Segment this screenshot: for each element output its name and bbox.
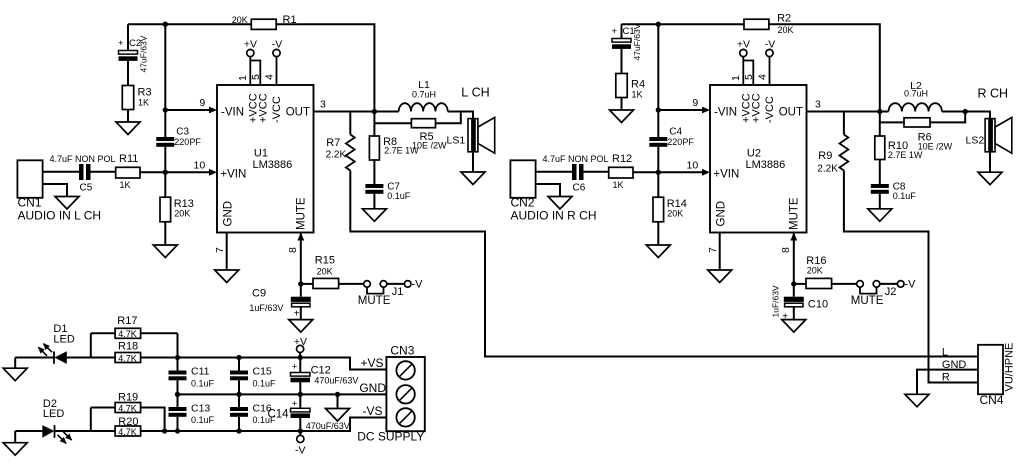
- svg-text:7: 7: [214, 247, 226, 253]
- wire: D2 to R19/R20: [55, 430, 91, 432]
- wire: C6 to R12: [584, 171, 609, 173]
- svg-text:0.1uF: 0.1uF: [387, 191, 411, 201]
- wire: -VS rail: [91, 430, 115, 432]
- node GND/C15-C16: [236, 392, 241, 397]
- svg-text:L CH: L CH: [461, 86, 489, 100]
- svg-text:20K: 20K: [317, 266, 333, 276]
- wire: C4 to +VIN node: [657, 147, 659, 173]
- svg-text:LS1: LS1: [447, 135, 466, 147]
- resistor R3 1K: [122, 86, 133, 110]
- ground (below R13): [153, 245, 177, 258]
- wire: pin 9 -VIN into U2: [658, 109, 704, 111]
- resistor R2 20K feedback: [744, 19, 769, 29]
- jumper J2 pin C (-V): [897, 281, 904, 288]
- wire: R7 to headphone L line: [350, 171, 978, 357]
- wire: mute junction to R15: [301, 283, 313, 285]
- wire: C14 column: [299, 394, 301, 408]
- svg-text:4.7K: 4.7K: [118, 427, 137, 437]
- capacitor C5 4.7uF NON POL: [79, 164, 84, 180]
- wire: GND rail: [178, 393, 387, 395]
- node OUT junction R: [877, 109, 882, 114]
- svg-text:R9: R9: [818, 150, 832, 162]
- resistor R20 4.7K: [115, 426, 141, 436]
- svg-text:LM3886: LM3886: [746, 159, 786, 171]
- svg-text:AUDIO IN R CH: AUDIO IN R CH: [511, 209, 597, 223]
- junction node top rail x165.3: [163, 22, 168, 27]
- svg-text:C9: C9: [252, 288, 266, 300]
- capacitor C11 0.1uF: [169, 371, 187, 375]
- svg-text:220PF: 220PF: [174, 137, 201, 147]
- svg-text:+: +: [292, 398, 298, 409]
- svg-text:C11: C11: [191, 366, 210, 378]
- svg-text:R18: R18: [118, 341, 138, 353]
- jumper J1 pin A: [364, 281, 371, 288]
- ground (CN2): [548, 197, 572, 210]
- svg-text:2.2K: 2.2K: [326, 150, 347, 161]
- wire: +VS rail: [91, 357, 115, 359]
- wire: C1 to R4: [621, 49, 623, 74]
- capacitor C10 1uF/63V (polarized): [784, 297, 804, 302]
- wire: -VIN vertical net (L): [164, 24, 166, 137]
- jumper J2 pin B: [873, 281, 880, 288]
- speaker LS1: [468, 119, 478, 152]
- wire: C12 column: [299, 358, 301, 373]
- svg-text:4: 4: [756, 74, 768, 80]
- svg-text:2.2K: 2.2K: [817, 164, 838, 175]
- svg-text:LS2: LS2: [966, 135, 985, 147]
- wire: pin 9 -VIN into U1: [165, 109, 211, 111]
- terminal -V (VEE): [273, 49, 280, 56]
- wire: R10 branch down: [879, 112, 881, 137]
- svg-text:0.1uF: 0.1uF: [893, 191, 917, 201]
- capacitor C16 0.1uF: [230, 407, 248, 411]
- svg-text:+VCC: +VCC: [258, 93, 270, 123]
- terminal -V (supply): [297, 435, 304, 442]
- svg-text:R12: R12: [612, 153, 632, 165]
- resistor R4 1K: [616, 74, 627, 98]
- svg-text:4.7uF NON POL: 4.7uF NON POL: [50, 154, 116, 164]
- wire: R17 row: [91, 332, 178, 334]
- resistor R9 2.2K (zigzag): [840, 135, 849, 171]
- svg-text:47uF/63V: 47uF/63V: [139, 35, 149, 72]
- ground (D2): [14, 431, 16, 443]
- wire: LS2 to ground: [989, 152, 991, 172]
- svg-text:R1: R1: [283, 14, 297, 26]
- node -VIN junction (L): [163, 107, 168, 112]
- node GND/C12-C14: [298, 392, 303, 397]
- wire: jumper B to C: [880, 283, 898, 285]
- svg-text:C14: C14: [267, 409, 289, 421]
- diode D1 LED: [53, 351, 55, 363]
- wire: OUT pin 3 to junction (L): [314, 111, 375, 113]
- svg-text:U2: U2: [747, 148, 761, 160]
- svg-text:-VIN: -VIN: [221, 107, 244, 119]
- ground (C10): [782, 320, 806, 333]
- ground (below R14): [646, 245, 670, 258]
- svg-text:CN4: CN4: [980, 393, 1004, 407]
- wire: ground to D1: [15, 357, 54, 359]
- svg-text:LM3886: LM3886: [253, 159, 293, 171]
- svg-text:4.7K: 4.7K: [118, 354, 137, 364]
- svg-text:+VS: +VS: [360, 356, 383, 370]
- resistor R7 2.2K (zigzag): [346, 135, 355, 171]
- svg-text:-VCC: -VCC: [764, 96, 776, 123]
- svg-text:220PF: 220PF: [667, 137, 694, 147]
- resistor R17 4.7K: [115, 328, 141, 338]
- wire: C2 column (L): [127, 24, 129, 50]
- svg-text:1: 1: [730, 75, 742, 81]
- wire: R9 to headphone R line: [844, 171, 978, 383]
- wire: C5 to R11: [91, 171, 116, 173]
- node L2/R6 junction: [963, 109, 968, 114]
- wire: Zobel R5 branch: [374, 122, 411, 124]
- svg-text:R7: R7: [326, 137, 340, 149]
- wire: R9 tap down: [843, 112, 845, 135]
- capacitor C2 47uF/63V (polarized): [119, 51, 138, 55]
- wire: C9 to ground: [300, 307, 302, 320]
- ground (supply GND): [326, 409, 350, 422]
- svg-text:R17: R17: [117, 315, 137, 327]
- svg-text:2.7E 1W: 2.7E 1W: [888, 150, 923, 160]
- jumper J1 pin B: [380, 281, 387, 288]
- svg-text:0.1uF: 0.1uF: [191, 379, 215, 389]
- svg-text:-VIN: -VIN: [714, 107, 737, 119]
- wire: pin 4 supply: [769, 57, 771, 85]
- svg-text:LED: LED: [53, 333, 74, 345]
- wire: +VIN node down to R14: [657, 172, 659, 197]
- svg-text:20K: 20K: [174, 208, 190, 218]
- svg-text:MUTE: MUTE: [851, 295, 884, 307]
- ground (pin 7): [215, 270, 239, 283]
- svg-text:20K: 20K: [807, 266, 823, 276]
- diode D2 LED: [42, 425, 54, 438]
- resistor R12 1K: [609, 167, 633, 178]
- svg-text:MUTE: MUTE: [296, 197, 308, 230]
- resistor R10 2.7E 1W: [875, 136, 885, 160]
- capacitor C1 47uF/63V (polarized): [612, 39, 631, 43]
- wire: R8 to C7: [373, 160, 375, 184]
- svg-text:0.7uH: 0.7uH: [412, 90, 436, 100]
- wire: -VIN vertical net (R): [657, 24, 659, 137]
- wire: +VIN node down to R13: [164, 172, 166, 197]
- node mute junction (R): [791, 281, 796, 286]
- svg-text:4: 4: [263, 74, 275, 80]
- node +VS/C15: [236, 355, 241, 360]
- terminal +V (VCC): [247, 49, 254, 56]
- svg-text:4.7uF NON POL: 4.7uF NON POL: [543, 154, 609, 164]
- ground (below R4): [610, 110, 634, 123]
- svg-text:MUTE: MUTE: [789, 197, 801, 230]
- svg-text:1uF/63V: 1uF/63V: [771, 285, 781, 317]
- wire: R8 branch down: [373, 112, 375, 137]
- node OUT junction L: [372, 109, 377, 114]
- wire: mute junction to R16: [794, 283, 806, 285]
- svg-text:-V: -V: [905, 279, 917, 291]
- wire: R11 output to pin 10, +VIN into U1: [140, 171, 211, 173]
- svg-text:CN2: CN2: [511, 196, 535, 210]
- wire: R3 to ground: [127, 110, 129, 123]
- resistor R16 20K: [806, 278, 832, 288]
- svg-text:0.1uF: 0.1uF: [191, 415, 215, 425]
- svg-text:1K: 1K: [138, 98, 149, 108]
- svg-text:1: 1: [237, 75, 249, 81]
- terminal +V (VCC): [740, 49, 747, 56]
- LED D2 emission arrows: [58, 435, 67, 444]
- wire: R to jumper J2: [832, 283, 857, 285]
- terminal +V (supply): [297, 345, 304, 352]
- wire: C15 column: [238, 358, 240, 371]
- wire: D1 to R17/R18: [67, 357, 91, 359]
- svg-text:5: 5: [743, 74, 755, 80]
- ground (LS2): [978, 172, 1002, 185]
- svg-text:-VCC: -VCC: [271, 96, 283, 123]
- wire: OUT pin 3 to junction (R): [807, 111, 880, 113]
- wire: R19 row: [91, 407, 115, 409]
- svg-text:+VCC: +VCC: [751, 93, 763, 123]
- svg-text:GND: GND: [359, 381, 386, 395]
- wire: pin 7 to ground: [226, 233, 228, 271]
- svg-text:J2: J2: [885, 286, 897, 298]
- LED D1 emission arrows: [39, 347, 48, 356]
- CN3 screw terminal 3: [396, 408, 414, 426]
- svg-text:10: 10: [194, 160, 206, 172]
- resistor R13 20K: [160, 197, 171, 222]
- wire: mute junction down to C10: [793, 284, 795, 297]
- ground (D1): [14, 358, 16, 369]
- svg-text:+: +: [294, 309, 300, 320]
- svg-text:C13: C13: [191, 403, 210, 415]
- svg-text:470uF/63V: 470uF/63V: [314, 376, 358, 386]
- wire: CN4 GND to ground: [917, 370, 978, 395]
- jumper J1 pin C (-V): [404, 281, 411, 288]
- capacitor C8 0.1uF: [871, 184, 889, 188]
- svg-text:8: 8: [287, 247, 299, 253]
- wire: R10 to C8: [879, 160, 881, 185]
- svg-text:3: 3: [320, 99, 326, 111]
- op-amp U1 LM3886: [217, 85, 314, 233]
- wire: R17 drop to +VS rail: [177, 333, 179, 357]
- wire: jumper B to C: [387, 283, 405, 285]
- svg-text:4.7K: 4.7K: [118, 404, 137, 414]
- svg-text:R: R: [942, 372, 950, 384]
- svg-text:VU/HPNE: VU/HPNE: [1004, 343, 1016, 392]
- svg-text:+: +: [118, 38, 124, 49]
- node -VS/C13: [175, 428, 180, 433]
- wire: feedback top rail net (L): [128, 23, 251, 25]
- svg-text:U1: U1: [254, 148, 268, 160]
- resistor R5 10E /2W: [411, 119, 435, 128]
- capacitor C6 4.7uF NON POL: [572, 164, 577, 180]
- resistor R8 2.7E 1W: [369, 136, 379, 160]
- resistor R15 20K: [313, 278, 339, 288]
- capacitor C12 470uF/63V (polarized): [291, 373, 311, 377]
- junction node top rail x658.3: [656, 22, 661, 27]
- svg-text:LED: LED: [43, 408, 64, 420]
- node -VS/C14: [298, 428, 303, 433]
- wire: GND tap to ground: [337, 394, 339, 408]
- svg-text:5: 5: [250, 74, 262, 80]
- svg-text:+VIN: +VIN: [220, 169, 246, 181]
- wire: R to jumper J1: [339, 283, 364, 285]
- wire: +V to +VS rail: [299, 353, 301, 358]
- wire: C13 column: [177, 394, 179, 407]
- svg-text:+V: +V: [244, 39, 257, 51]
- svg-text:0.7uH: 0.7uH: [904, 89, 928, 99]
- capacitor C9 1uF/63V (polarized): [291, 297, 311, 302]
- wire: CN2 signal to C6: [536, 171, 572, 173]
- svg-text:-VS: -VS: [362, 404, 382, 418]
- connector CN3 DC SUPPLY: [386, 357, 424, 431]
- svg-text:10: 10: [687, 160, 699, 172]
- inductor L1 0.7uH: [374, 111, 398, 113]
- CN3 screw terminal 2: [396, 385, 414, 403]
- resistor R18 4.7K: [115, 353, 141, 363]
- svg-text:OUT: OUT: [286, 107, 310, 119]
- ground (CN1): [55, 197, 79, 210]
- svg-text:8: 8: [780, 247, 792, 253]
- wire: pin 8 mute net: [793, 233, 795, 284]
- wire: C16 column: [238, 394, 240, 407]
- op-amp U2 LM3886: [710, 85, 807, 233]
- connector CN2 audio input: [510, 160, 535, 198]
- wire: jumper shorting link: [367, 287, 384, 293]
- resistor R14 20K: [653, 197, 664, 222]
- svg-text:20K: 20K: [232, 15, 248, 25]
- connector CN4 VU/HPNE: [978, 345, 1003, 395]
- svg-text:-V: -V: [295, 445, 306, 457]
- node +VS/C11: [175, 355, 180, 360]
- wire: L1 to speaker LS1: [448, 112, 473, 119]
- node GND tap: [335, 392, 340, 397]
- wire: R13 to ground: [164, 222, 166, 245]
- svg-text:0.1uF: 0.1uF: [253, 379, 277, 389]
- svg-text:+: +: [292, 361, 298, 372]
- wire: pin 8 mute net: [300, 233, 302, 284]
- svg-text:470uF/63V: 470uF/63V: [306, 421, 350, 431]
- svg-text:GND: GND: [716, 201, 728, 227]
- svg-text:AUDIO IN L CH: AUDIO IN L CH: [18, 209, 102, 223]
- node mute junction (L): [298, 281, 303, 286]
- jumper J2 pin A: [857, 281, 864, 288]
- wire: C1 column (R): [621, 24, 623, 38]
- speaker LS2: [985, 119, 995, 152]
- wire: pin 1 and pin 5 supply: [742, 57, 744, 85]
- svg-text:R19: R19: [118, 392, 138, 404]
- node +VIN junction (R): [656, 170, 661, 175]
- svg-text:C6: C6: [573, 183, 586, 194]
- svg-text:4.7K: 4.7K: [118, 329, 137, 339]
- node +VIN junction (L): [163, 170, 168, 175]
- svg-text:47uF/63V: 47uF/63V: [632, 23, 642, 60]
- wire: CN1 signal to C5: [43, 171, 79, 173]
- svg-text:C15: C15: [253, 366, 272, 378]
- wire: C3 to +VIN node: [164, 147, 166, 173]
- svg-text:MUTE: MUTE: [358, 295, 391, 307]
- svg-text:C4: C4: [669, 127, 682, 138]
- node -VS/C16: [236, 428, 241, 433]
- wire: mute junction down to C9: [300, 284, 302, 297]
- svg-text:GND: GND: [223, 201, 235, 227]
- svg-text:J1: J1: [392, 286, 404, 298]
- svg-text:-V: -V: [272, 39, 283, 51]
- capacitor C15 0.1uF: [230, 371, 248, 375]
- ground (C7): [362, 209, 386, 222]
- wire: C10 to ground: [793, 307, 795, 320]
- capacitor C4 220PF: [649, 137, 667, 141]
- svg-text:C3: C3: [176, 127, 189, 138]
- svg-text:7: 7: [707, 247, 719, 253]
- wire: CN2 ground stub: [536, 184, 560, 197]
- node -VIN junction (R): [656, 107, 661, 112]
- svg-text:+VIN: +VIN: [713, 169, 739, 181]
- resistor R19 4.7K: [115, 403, 141, 413]
- wire: R12 output to pin 10, +VIN into U2: [633, 171, 704, 173]
- svg-text:+V: +V: [294, 336, 307, 348]
- svg-text:R15: R15: [315, 255, 335, 267]
- ground (CN4): [905, 394, 929, 407]
- CN3 screw terminal 1: [396, 361, 414, 379]
- wire: feedback top rail net (R): [622, 23, 745, 25]
- svg-text:CN1: CN1: [18, 196, 42, 210]
- wire: LS1 to ground: [472, 152, 474, 172]
- resistor R11 1K: [116, 167, 140, 178]
- wire: C8 to ground: [879, 194, 881, 209]
- capacitor C7 0.1uF: [365, 184, 383, 188]
- svg-text:-V: -V: [765, 39, 776, 51]
- svg-text:9: 9: [199, 97, 205, 109]
- svg-text:OUT: OUT: [779, 107, 803, 119]
- node R19/-VS: [162, 428, 167, 433]
- svg-text:DC SUPPLY: DC SUPPLY: [357, 430, 424, 444]
- svg-text:1K: 1K: [632, 90, 643, 100]
- svg-text:R11: R11: [119, 153, 138, 165]
- connector CN1 audio input: [17, 160, 42, 198]
- svg-text:20K: 20K: [667, 208, 683, 218]
- node +VS/C12: [298, 355, 303, 360]
- svg-text:3: 3: [815, 99, 821, 111]
- wire: C11 column: [177, 358, 179, 371]
- node GND/C11-C13: [175, 392, 180, 397]
- wire: pin 4 supply: [276, 57, 278, 85]
- capacitor C14 470uF/63V (polarized): [291, 408, 311, 412]
- wire: R4 to ground: [621, 98, 623, 111]
- wire: pin 1 and pin 5 supply: [249, 57, 251, 85]
- svg-text:R CH: R CH: [978, 87, 1009, 101]
- svg-text:C5: C5: [80, 183, 93, 194]
- svg-text:+V: +V: [737, 39, 750, 51]
- capacitor C3 220PF: [156, 137, 174, 141]
- wire: R7 tap down: [349, 112, 351, 135]
- svg-text:1uF/63V: 1uF/63V: [249, 303, 283, 313]
- ground (pin 7): [708, 270, 732, 283]
- resistor R6 10E /2W: [904, 118, 930, 127]
- terminal -V (VEE): [766, 49, 773, 56]
- wire: C2 to R3: [127, 61, 129, 86]
- wire: ground to D2: [15, 430, 42, 432]
- svg-text:L: L: [942, 347, 948, 359]
- capacitor C13 0.1uF: [169, 407, 187, 411]
- wire: R14 to ground: [657, 222, 659, 245]
- svg-text:10E /2W: 10E /2W: [918, 142, 953, 152]
- wire: Zobel R6 branch: [880, 121, 904, 123]
- svg-text:20K: 20K: [778, 25, 794, 35]
- svg-text:-V: -V: [412, 279, 424, 291]
- svg-text:R2: R2: [777, 13, 791, 25]
- wire: jumper shorting link: [860, 287, 877, 293]
- resistor R1 20K feedback: [251, 19, 276, 29]
- wire: pin 7 to ground: [719, 233, 721, 271]
- ground (C9): [289, 320, 313, 333]
